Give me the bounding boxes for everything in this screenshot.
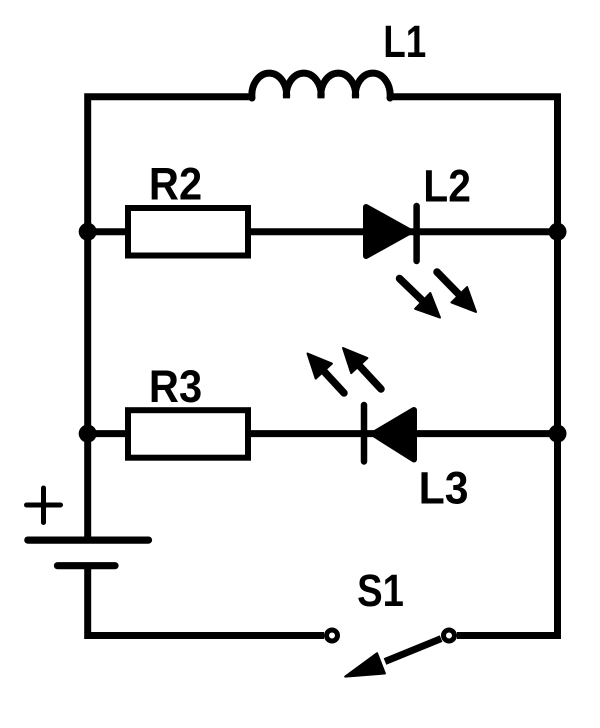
- LED L3 triangle: [374, 410, 415, 460]
- wire bottom-left segment up to battery: [88, 568, 324, 636]
- svg-text:L2: L2: [423, 161, 471, 212]
- node junction row3 right: [549, 425, 567, 443]
- LED L2 cathode bar: [413, 206, 420, 261]
- svg-text:R2: R2: [149, 158, 202, 209]
- svg-text:L1: L1: [383, 16, 426, 67]
- battery B1 negative plate: [58, 562, 116, 569]
- resistor R2: [128, 208, 248, 256]
- wire top-right segment, right side, bottom-right segment: [388, 97, 558, 636]
- wire row 3: [88, 430, 558, 437]
- battery B1 positive plate: [28, 536, 149, 543]
- light emission arrow L3 a: [308, 354, 345, 394]
- switch S1 left contact: [327, 630, 338, 641]
- wire row 2: [88, 228, 558, 235]
- light emission arrow L2 a: [400, 279, 441, 318]
- switch S1 right contact: [444, 630, 455, 641]
- node junction row3 left: [79, 425, 97, 443]
- resistor R3: [128, 410, 248, 458]
- wire left side and top-left segment: [88, 97, 254, 540]
- svg-text:S1: S1: [357, 565, 404, 616]
- node junction row2 left: [79, 223, 97, 241]
- light emission arrow L2 b: [437, 272, 476, 312]
- light emission arrow L3 b: [343, 348, 381, 389]
- LED L2 triangle: [366, 207, 410, 256]
- node junction row2 right: [549, 223, 567, 241]
- svg-text:L3: L3: [419, 462, 469, 513]
- inductor L1: [252, 73, 390, 98]
- svg-text:R3: R3: [149, 361, 202, 412]
- switch S1 arm with arrow: [345, 639, 441, 677]
- battery B1 plus sign: [27, 488, 61, 523]
- LED L3 cathode bar: [361, 405, 368, 462]
